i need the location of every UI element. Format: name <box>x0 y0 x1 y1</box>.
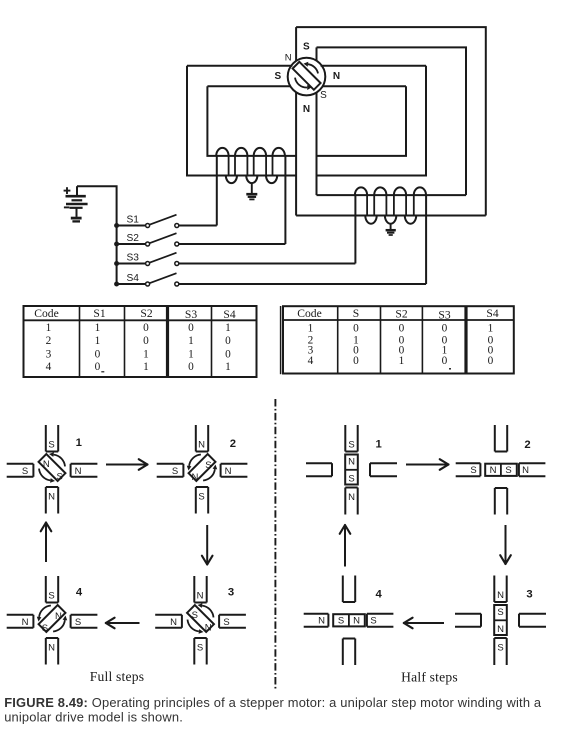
svg-text:S2: S2 <box>395 308 407 321</box>
svg-text:N: N <box>22 617 29 628</box>
svg-text:1: 1 <box>225 322 231 334</box>
wire S4 drop from winding B right end <box>425 195 427 284</box>
half-step 2: stator pole (bottom), unenergized <box>495 488 507 515</box>
svg-text:Half steps: Half steps <box>401 670 458 685</box>
svg-text:1: 1 <box>225 361 231 373</box>
full-step 4: stator pole (left) with N label <box>7 615 34 628</box>
wire winding B lower line <box>296 215 486 217</box>
svg-text:N: N <box>170 617 177 628</box>
wire left pole inner to winding A upper line <box>207 86 296 156</box>
svg-text:N: N <box>48 492 55 503</box>
svg-text:0: 0 <box>442 323 448 335</box>
rotor (stepper motor) <box>288 58 326 96</box>
full-step 2: stator pole (top) with N label <box>196 425 208 452</box>
full-step 4: stator pole (bottom) with N label <box>46 638 58 665</box>
wire S2 drop from winding A right end <box>284 156 286 244</box>
svg-text:S: S <box>470 465 476 476</box>
svg-text:N: N <box>48 643 55 654</box>
ground (battery) <box>71 218 82 221</box>
switch S2 <box>117 233 179 246</box>
wire fourth loop (right pole to winding A) <box>317 86 407 156</box>
ground (winding A center tap) <box>246 194 257 199</box>
wire winding B upper line <box>317 194 467 196</box>
svg-text:N: N <box>191 472 198 483</box>
stator pole bar (left, upper line) <box>187 65 292 67</box>
wire S3 drop from winding B left end <box>354 195 356 263</box>
wire battery to switch bus <box>77 186 117 284</box>
svg-text:S: S <box>205 460 211 471</box>
half-step 1: rotor magnet (N up) <box>345 455 358 485</box>
arrow half-step 1 to 2 <box>406 464 449 466</box>
wire winding B center tap <box>390 224 392 230</box>
svg-text:S3: S3 <box>185 308 197 321</box>
half-step 1: stator pole (left), unenergized <box>306 463 332 476</box>
svg-text:S: S <box>353 307 359 320</box>
svg-text:S: S <box>497 643 503 654</box>
svg-text:1: 1 <box>46 322 52 334</box>
svg-text:S: S <box>198 492 204 503</box>
half-step 3: stator pole (left), unenergized <box>455 614 481 627</box>
svg-text:S: S <box>274 71 281 82</box>
arrow full-step 2 to 3 <box>206 525 208 565</box>
svg-text:S: S <box>348 474 354 485</box>
svg-text:1: 1 <box>143 361 149 373</box>
arrow full-step 1 to 2 <box>106 464 148 466</box>
wire S1 drop to winding A left end <box>216 156 218 226</box>
svg-text:N: N <box>353 616 360 627</box>
wire outer loop (top pole to winding B) <box>296 27 486 215</box>
wire S2 to winding <box>179 243 285 245</box>
svg-text:unipolar drive model is shown.: unipolar drive model is shown. <box>4 710 183 725</box>
arrow half-step 4 to 1 <box>344 525 346 567</box>
full-step 1: stator pole (top) with S label <box>46 425 58 452</box>
svg-text:3: 3 <box>46 349 52 361</box>
svg-text:2: 2 <box>524 439 530 451</box>
switch S3 <box>117 252 179 265</box>
svg-text:S: S <box>48 440 54 451</box>
svg-text:S: S <box>22 466 28 477</box>
svg-text:1: 1 <box>188 349 194 361</box>
svg-text:4: 4 <box>46 361 52 373</box>
svg-text:S: S <box>338 616 344 627</box>
svg-text:0: 0 <box>399 323 405 335</box>
arrow full-step 4 to 1 <box>45 523 47 563</box>
svg-text:N: N <box>348 492 355 503</box>
svg-text:S: S <box>497 607 503 618</box>
svg-text:S: S <box>57 472 63 483</box>
rotor rotation arrow (top) <box>308 64 318 73</box>
winding L2 (phase B, center-tapped) <box>355 187 426 223</box>
half-step 4: stator pole (left) with N label <box>304 614 329 627</box>
svg-text:0: 0 <box>225 335 231 347</box>
svg-text:2: 2 <box>46 335 52 347</box>
svg-text:N: N <box>43 459 50 470</box>
table: half-step switching code (right) <box>281 306 514 374</box>
svg-text:S3: S3 <box>127 252 140 263</box>
switch S4 <box>117 273 179 286</box>
full-step 2: rotation arrow (top-left) <box>189 455 201 466</box>
svg-text:S: S <box>348 440 354 451</box>
svg-text:N: N <box>198 440 205 451</box>
full-step 4: stator pole (right) with S label <box>71 615 98 628</box>
svg-text:4: 4 <box>308 355 314 367</box>
svg-text:S1: S1 <box>93 307 105 320</box>
svg-text:0: 0 <box>188 361 194 373</box>
full-step 1: stator pole (right) with N label <box>71 464 98 477</box>
svg-text:N: N <box>348 457 355 468</box>
svg-text:S4: S4 <box>223 308 235 321</box>
svg-text:S4: S4 <box>486 307 498 320</box>
svg-text:N: N <box>55 611 62 622</box>
svg-text:0: 0 <box>95 349 101 361</box>
svg-text:Code: Code <box>297 307 321 320</box>
svg-text:S1: S1 <box>127 214 140 225</box>
stator pole bar (right, lower line) <box>323 85 406 87</box>
svg-text:S2: S2 <box>127 233 140 244</box>
half-step 3: stator pole (top) with N label <box>494 576 506 603</box>
svg-text:0: 0 <box>143 335 149 347</box>
svg-text:0: 0 <box>353 355 359 367</box>
half-step 1: stator pole (right), unenergized <box>370 463 397 476</box>
full-step 1: rotor magnet <box>39 454 66 481</box>
full-step 1: rotation arrow (bottom-left) <box>39 469 50 481</box>
stator pole bar (top, left side) <box>295 27 297 61</box>
svg-text:N: N <box>497 590 504 601</box>
arrow half-step 2 to 3 <box>505 525 507 564</box>
dashed divider between full-step and half-step diagrams <box>274 399 276 690</box>
winding L1 (phase A, center-tapped) <box>216 148 285 183</box>
svg-text:0: 0 <box>442 355 448 367</box>
half-step 2: stator pole (right) with N label <box>519 463 546 476</box>
svg-text:1: 1 <box>399 355 405 367</box>
wire third loop (right pole to winding A) <box>317 66 427 176</box>
wire left pole outer to winding A lower line <box>187 66 296 176</box>
full-step 3: stator pole (top) with N label <box>194 576 206 603</box>
svg-text:N: N <box>225 466 232 477</box>
wire second loop (top pole to winding B) <box>317 47 467 195</box>
svg-text:S: S <box>42 623 48 634</box>
rotor magnet bar <box>293 62 321 90</box>
full-step 4: rotation arrow (bottom-right) <box>53 620 65 631</box>
svg-text:3: 3 <box>228 587 234 599</box>
svg-text:N: N <box>303 104 310 115</box>
arrow half-step 3 to 4 <box>404 622 444 624</box>
full-step 2: stator pole (bottom) with S label <box>196 487 208 514</box>
svg-text:1: 1 <box>95 335 101 347</box>
full-step 4: rotor magnet <box>39 605 66 632</box>
svg-text:S: S <box>505 465 511 476</box>
half-step 3: rotor magnet (S up) <box>494 605 507 635</box>
svg-text:N: N <box>285 53 292 64</box>
full-step 3: rotation arrow (top-right) <box>202 606 213 618</box>
svg-text:4: 4 <box>76 587 83 599</box>
full-step 3: stator pole (right) with S label <box>219 615 246 628</box>
svg-text:S4: S4 <box>127 273 140 284</box>
half-step 2: rotor magnet (N left) <box>485 464 517 476</box>
svg-text:S: S <box>192 610 198 621</box>
svg-text:1: 1 <box>375 439 381 451</box>
svg-text:S: S <box>370 616 376 627</box>
half-step 3: stator pole (right), unenergized <box>519 614 546 627</box>
svg-text:3: 3 <box>526 589 532 601</box>
svg-text:1: 1 <box>488 323 494 335</box>
svg-text:S3: S3 <box>438 309 450 322</box>
half-step 4: stator pole (top), unenergized <box>343 576 355 603</box>
svg-text:N: N <box>490 465 497 476</box>
svg-text:1: 1 <box>143 349 149 361</box>
switch S1 <box>117 214 179 227</box>
svg-text:S: S <box>75 617 81 628</box>
svg-text:S: S <box>303 42 310 53</box>
full-step 1: rotation arrow (top-right) <box>54 455 65 467</box>
junction node (S4 bus tap) <box>114 282 119 287</box>
full-step 2: rotor magnet <box>189 454 216 481</box>
svg-text:2: 2 <box>230 438 236 450</box>
wire S1 to winding <box>179 225 217 227</box>
full-step 3: stator pole (left) with N label <box>155 615 182 628</box>
junction node (S2 bus tap) <box>114 242 119 247</box>
svg-text:S: S <box>48 591 54 602</box>
svg-text:1: 1 <box>308 323 314 335</box>
svg-text:S: S <box>320 90 327 101</box>
stator pole bar (top, right side) <box>316 47 318 60</box>
svg-text:N: N <box>522 465 529 476</box>
half-step 1: stator pole (top) with S label <box>345 425 357 452</box>
half-step 3: stator pole (bottom) with S label <box>494 638 506 665</box>
stator pole bar (bottom, right side) <box>316 93 318 195</box>
half-step 1: stator pole (bottom) with N label <box>345 488 357 515</box>
wire winding A center tap <box>251 183 253 193</box>
full-step 4: stator pole (top) with S label <box>46 576 58 603</box>
wire S4 to winding <box>179 283 426 285</box>
stator pole bar (left, lower line) <box>207 85 290 87</box>
svg-text:0: 0 <box>95 361 101 373</box>
full-step 2: stator pole (left) with S label <box>157 464 184 477</box>
svg-text:1: 1 <box>95 322 101 334</box>
half-step 2: stator pole (left) with S label <box>456 463 481 476</box>
junction node (S1 bus tap) <box>114 223 119 228</box>
half-step 4: rotor magnet (S left) <box>333 614 365 626</box>
full-step 2: stator pole (right) with N label <box>221 464 248 477</box>
full-step 3: rotor magnet <box>187 605 214 632</box>
battery plus label <box>64 187 71 194</box>
svg-text:0: 0 <box>225 349 231 361</box>
junction node (S3 bus tap) <box>114 261 119 266</box>
full-step 2: rotation arrow (bottom-right) <box>203 469 215 480</box>
full-step 3: stator pole (bottom) with S label <box>194 638 206 665</box>
stator pole bar (right, upper line) <box>321 65 426 67</box>
svg-text:N: N <box>75 466 82 477</box>
svg-text:N: N <box>197 591 204 602</box>
full-step 1: stator pole (left) with S label <box>7 464 34 477</box>
svg-text:N: N <box>318 616 325 627</box>
svg-text:0: 0 <box>188 322 194 334</box>
full-step 4: rotation arrow (top-left) <box>39 606 51 617</box>
stator pole bar (bottom, left side) <box>295 92 297 216</box>
svg-text:S: S <box>197 643 203 654</box>
svg-text:Full steps: Full steps <box>90 669 145 684</box>
half-step 2: stator pole (top), unenergized <box>495 425 507 452</box>
svg-text:0: 0 <box>353 323 359 335</box>
half-step 4: stator pole (bottom), unenergized <box>343 639 355 666</box>
svg-text:S2: S2 <box>140 307 152 320</box>
battery minus label <box>64 206 69 208</box>
battery V1 <box>66 186 88 217</box>
wire S3 to winding <box>179 263 355 265</box>
svg-text:0: 0 <box>143 322 149 334</box>
svg-text:S: S <box>172 466 178 477</box>
svg-text:1: 1 <box>76 437 82 449</box>
svg-text:Code: Code <box>34 307 58 320</box>
full-step 1: stator pole (bottom) with N label <box>46 487 58 514</box>
svg-text:FIGURE 8.49: Operating princip: FIGURE 8.49: Operating principles of a s… <box>4 695 542 710</box>
arrow full-step 3 to 4 <box>106 622 140 624</box>
svg-text:S: S <box>223 617 229 628</box>
svg-text:1: 1 <box>188 335 194 347</box>
svg-text:4: 4 <box>375 589 382 601</box>
half-step 4: stator pole (right) with S label <box>367 614 394 627</box>
full-step 3: rotation arrow (bottom-left) <box>188 620 199 632</box>
svg-text:N: N <box>497 624 504 635</box>
svg-text:N: N <box>333 71 340 82</box>
svg-text:0: 0 <box>488 355 494 367</box>
table: full-step switching code (left) <box>24 306 257 377</box>
rotor rotation arrow (bottom) <box>295 78 307 88</box>
ground (winding B center tap) <box>386 230 396 235</box>
svg-text:N: N <box>205 623 212 634</box>
